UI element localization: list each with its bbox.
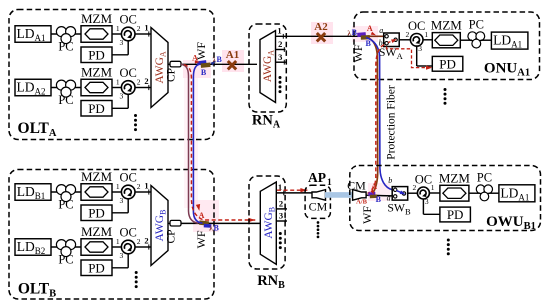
svg-text:WF: WF	[194, 230, 208, 248]
svg-text:3: 3	[120, 92, 124, 101]
svg-text:2: 2	[144, 236, 148, 246]
svg-text:1: 1	[116, 237, 120, 246]
svg-text:B: B	[376, 195, 382, 204]
svg-text:3: 3	[279, 210, 283, 220]
svg-text:Protection Fiber: Protection Fiber	[385, 85, 397, 160]
svg-text:A: A	[371, 182, 377, 191]
svg-text:B: B	[352, 28, 358, 37]
svg-text:1: 1	[277, 25, 281, 35]
svg-text:PC: PC	[477, 171, 492, 185]
svg-text:A2: A2	[314, 21, 328, 33]
svg-text:MZM: MZM	[81, 11, 113, 26]
svg-text:1: 1	[144, 23, 148, 33]
svg-text:1: 1	[431, 183, 435, 192]
svg-text:2: 2	[279, 198, 283, 208]
svg-text:OC: OC	[120, 13, 137, 27]
svg-text:2: 2	[413, 183, 417, 192]
svg-text:2: 2	[137, 182, 141, 191]
svg-text:B: B	[201, 68, 207, 77]
svg-text:PC: PC	[58, 253, 73, 267]
svg-text:PD: PD	[439, 56, 456, 71]
svg-text:PC: PC	[58, 40, 73, 54]
svg-text:1: 1	[116, 78, 120, 87]
svg-text:PD: PD	[88, 205, 105, 220]
svg-text:3: 3	[418, 44, 422, 53]
svg-text:2: 2	[278, 39, 282, 49]
svg-text:1: 1	[116, 182, 120, 191]
svg-text:1: 1	[144, 181, 148, 191]
svg-text:CP: CP	[165, 68, 177, 82]
svg-text:3: 3	[120, 38, 124, 47]
svg-text:2: 2	[137, 78, 141, 87]
svg-text:OC: OC	[408, 19, 425, 33]
svg-text:1: 1	[327, 178, 332, 188]
svg-text:CM: CM	[309, 200, 328, 214]
svg-text:PD: PD	[88, 47, 105, 62]
svg-text:2: 2	[406, 30, 410, 39]
svg-text:A1: A1	[226, 49, 239, 61]
svg-text:PD: PD	[447, 207, 464, 222]
svg-text:1: 1	[424, 30, 428, 39]
svg-text:PC: PC	[469, 18, 484, 32]
svg-text:MZM: MZM	[81, 224, 113, 239]
svg-text:A/B: A/B	[356, 198, 368, 205]
svg-text:OC: OC	[120, 171, 137, 185]
svg-text:PD: PD	[88, 101, 105, 116]
svg-text:OC: OC	[120, 66, 137, 80]
svg-text:AP: AP	[308, 170, 326, 185]
svg-text:CP: CP	[165, 229, 177, 243]
svg-text:b: b	[388, 176, 392, 185]
svg-text:1: 1	[116, 24, 120, 33]
svg-text:3: 3	[120, 251, 124, 260]
svg-text:WF: WF	[351, 44, 365, 62]
svg-text:3: 3	[278, 52, 282, 62]
svg-text:3: 3	[425, 197, 429, 206]
svg-text:PC: PC	[58, 198, 73, 212]
svg-text:B: B	[214, 223, 220, 232]
svg-text:OC: OC	[120, 226, 137, 240]
svg-text:3: 3	[120, 196, 124, 205]
svg-text:B: B	[217, 55, 223, 64]
svg-text:MZM: MZM	[439, 170, 471, 185]
svg-text:OC: OC	[415, 173, 432, 187]
svg-text:WF: WF	[360, 206, 374, 224]
svg-text:MZM: MZM	[81, 169, 113, 184]
svg-text:PD: PD	[88, 260, 105, 275]
svg-text:a: a	[379, 26, 383, 35]
svg-text:MZM: MZM	[81, 64, 113, 79]
svg-text:2: 2	[137, 24, 141, 33]
svg-text:A: A	[367, 24, 373, 33]
svg-text:MZM: MZM	[431, 18, 463, 33]
svg-text:2: 2	[144, 76, 148, 86]
svg-text:2: 2	[137, 237, 141, 246]
svg-text:PC: PC	[58, 93, 73, 107]
